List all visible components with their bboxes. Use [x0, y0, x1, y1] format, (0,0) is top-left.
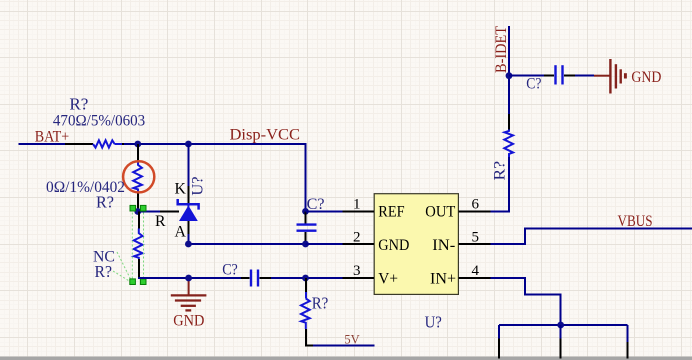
label pin name OUT — [425, 204, 455, 221]
svg-text:V+: V+ — [378, 270, 398, 287]
svg-text:U?: U? — [425, 313, 442, 332]
svg-text:1: 1 — [353, 197, 361, 213]
label pin name IN+ — [430, 270, 456, 287]
capacitor C3 horizontal — [544, 65, 575, 84]
pin 4 IN+ — [458, 277, 490, 279]
svg-text:Disp-VCC: Disp-VCC — [230, 125, 301, 144]
pin 3 V+ — [343, 277, 375, 279]
svg-text:C?: C? — [307, 194, 325, 213]
label C1 designator — [222, 260, 238, 279]
svg-text:R: R — [155, 213, 166, 230]
capacitor C1 horizontal row4 — [241, 270, 271, 287]
svg-text:U?: U? — [188, 176, 207, 195]
wire pin6 to B-IDET column — [490, 157, 509, 211]
pin stub middle of lower part — [560, 339, 562, 359]
pin A of diode U1 — [187, 221, 189, 234]
label pin name GND — [378, 237, 409, 254]
junction bottom jumper — [557, 322, 564, 329]
wire row4 left segment — [138, 277, 241, 279]
label C2 designator — [307, 194, 325, 213]
pin 1 REF — [343, 210, 375, 212]
resistor R5 vertical B-IDET — [504, 110, 513, 157]
junction at R1 / R2 node — [134, 141, 141, 148]
label pin name K — [175, 181, 187, 198]
svg-text:4: 4 — [472, 263, 480, 279]
label pin number 6 — [472, 197, 480, 213]
junction GND node row4 — [185, 275, 192, 282]
junction at node R pin — [134, 208, 141, 215]
net label B-IDET rotated — [491, 26, 510, 73]
label R4 designator — [312, 293, 329, 312]
pin K of diode U1 — [187, 186, 189, 204]
label R3 NC — [93, 247, 115, 266]
label IC U2 designator — [425, 313, 442, 332]
label R1 value 470 — [53, 112, 145, 130]
selection handles of R3 — [130, 205, 146, 284]
wire C3 to ground — [575, 75, 594, 77]
svg-text:5: 5 — [472, 230, 480, 246]
svg-text:R?: R? — [96, 193, 114, 212]
highlight circle around R2 — [123, 161, 154, 192]
pin R of diode U1 — [160, 211, 179, 213]
wire BAT+ left segment — [19, 143, 67, 145]
wire row2 to pin2 — [306, 243, 343, 245]
svg-text:3: 3 — [353, 263, 361, 279]
label GND right — [631, 67, 661, 86]
svg-text:B-IDET: B-IDET — [491, 26, 510, 73]
junction row4 at C2 column — [302, 275, 309, 282]
pin 5 IN- — [458, 243, 490, 245]
label pin number 5 — [472, 230, 480, 246]
resistor R2 0R vertical — [133, 144, 142, 212]
wire row2 diode anode to C2 node — [188, 234, 305, 244]
svg-text:R?: R? — [312, 293, 329, 312]
wire row1 to pin1 — [306, 210, 343, 212]
wire stub down right — [626, 325, 628, 342]
scrollbar bottom — [0, 357, 692, 360]
wire stub down middle — [560, 325, 562, 339]
svg-text:VBUS: VBUS — [618, 213, 653, 230]
wire from node to diode R pin — [138, 211, 160, 213]
wire Disp-VCC — [124, 144, 306, 211]
wire pin5 to VBUS — [490, 229, 692, 245]
label pin name A — [175, 224, 187, 241]
svg-text:A: A — [175, 224, 187, 241]
net label BAT+ — [35, 129, 69, 146]
label R2 value 0R — [46, 177, 125, 196]
label pin name R — [155, 213, 166, 230]
pin 2 GND — [343, 243, 375, 245]
svg-text:K: K — [175, 181, 187, 198]
label R3 designator — [95, 262, 113, 281]
svg-text:5V: 5V — [344, 332, 360, 347]
wire 5V net — [313, 345, 375, 347]
svg-text:BAT+: BAT+ — [35, 129, 69, 146]
label pin number 3 — [353, 263, 361, 279]
svg-text:2: 2 — [353, 230, 361, 246]
svg-text:GND: GND — [378, 237, 409, 254]
wire row4 right segment — [271, 277, 343, 279]
svg-text:C?: C? — [526, 74, 541, 93]
resistor R3 NC vertical — [134, 212, 143, 279]
label GND bottom — [173, 311, 204, 330]
svg-text:470Ω/5%/0603: 470Ω/5%/0603 — [53, 112, 145, 130]
ground GND power port right — [594, 59, 625, 94]
diode U1 schottky — [178, 199, 199, 221]
net label 5V — [344, 332, 360, 347]
selection leader lines to NC label — [113, 252, 131, 282]
svg-text:REF: REF — [378, 204, 404, 221]
wire stub down left — [498, 325, 500, 339]
ground GND power port bottom — [171, 278, 207, 310]
wire diode cathode to top wire — [187, 144, 189, 186]
svg-text:GND: GND — [173, 311, 204, 330]
label R2 designator — [96, 193, 114, 212]
pin stub right of lower part — [626, 342, 628, 359]
resistor R1 470R horizontal — [65, 140, 135, 147]
svg-text:GND: GND — [631, 67, 661, 86]
wire junction to C3 — [509, 75, 544, 77]
label R1 designator — [69, 95, 88, 114]
label pin number 2 — [353, 230, 361, 246]
label pin name V+ — [378, 270, 398, 287]
svg-text:IN+: IN+ — [430, 270, 456, 287]
wire R5 top to junction — [508, 76, 510, 110]
label diode U1 designator rotated — [188, 176, 207, 195]
resistor R4 to 5V vertical — [301, 278, 313, 346]
label C3 designator — [526, 74, 541, 93]
junction at diode branch on top wire — [185, 141, 192, 148]
capacitor C2 vertical — [297, 211, 317, 244]
svg-text:OUT: OUT — [425, 204, 455, 221]
junction row1 C2 top — [302, 208, 309, 215]
label R5 designator rotated — [490, 161, 509, 181]
label pin name REF — [378, 204, 404, 221]
junction B-IDET node — [506, 72, 513, 79]
svg-text:R?: R? — [490, 161, 509, 181]
svg-text:IN-: IN- — [432, 237, 455, 254]
junction row2 C2 bottom — [302, 241, 309, 248]
label pin number 1 — [353, 197, 361, 213]
label pin number 4 — [472, 263, 480, 279]
net label Disp-VCC — [230, 125, 301, 144]
junction diode anode row2 — [185, 241, 192, 248]
svg-text:C?: C? — [222, 260, 238, 279]
selection box of R3 — [132, 209, 143, 283]
pin stub left of lower part — [498, 339, 500, 359]
svg-text:R?: R? — [95, 262, 113, 281]
svg-text:6: 6 — [472, 197, 480, 213]
wire B-IDET stub up — [508, 26, 510, 76]
IC U2 body — [374, 194, 458, 295]
label pin name IN- — [432, 237, 455, 254]
wire pin4 stepped to bottom — [490, 278, 560, 325]
wire bottom jumper — [499, 324, 627, 326]
pin 6 OUT — [458, 210, 490, 212]
net label VBUS — [618, 213, 653, 230]
